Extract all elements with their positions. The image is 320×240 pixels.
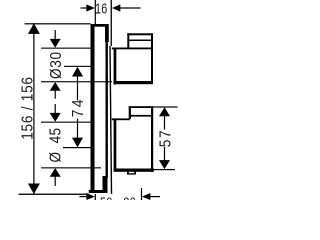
node 74 dimension bottom arrow — [72, 138, 83, 148]
node bottom dimension right arrow — [142, 193, 150, 200]
node bottom dimension left arrow — [86, 193, 94, 200]
wire: 57 dimension top extension line — [153, 106, 178, 107]
wire: 16 dimension left extension line — [95, 0, 96, 24]
node diameter 30 top arrow — [50, 39, 61, 48]
wire: 156 dimension line — [33, 23, 34, 194]
node diameter 45 top arrow — [50, 113, 61, 122]
node lower handle right edge — [151, 106, 153, 172]
node top handle body left edge — [114, 48, 117, 85]
wire: basic set top housing right leg — [105, 24, 109, 42]
node 156 dimension bottom arrow — [28, 184, 40, 195]
wire: bottom dimension left extension line — [95, 194, 96, 200]
svg-text:Ø30: Ø30 — [48, 51, 65, 79]
wire: 16 dimension right leader line — [120, 7, 141, 8]
node top handle cap top edge — [127, 33, 153, 35]
node lower handle bottom edge — [114, 169, 154, 172]
wire: 57 dimension line upper segment — [164, 116, 165, 130]
wire: bottom dimension right leader line — [150, 196, 160, 197]
wire: diameter 45 top arrow stem — [55, 104, 56, 114]
wire: finished wall section line — [91, 24, 95, 193]
wire: lower handle center extension line — [63, 147, 91, 148]
node 57 dimension bottom arrow — [159, 160, 170, 169]
node diameter 30 bottom arrow — [50, 82, 61, 91]
svg-text:57: 57 — [158, 129, 175, 148]
wire: escutcheon plate front edge upper line — [111, 0, 112, 46]
svg-text:50 - 80: 50 - 80 — [100, 196, 136, 200]
node top handle cap left edge — [127, 33, 129, 48]
wire: escutcheon plate back edge line — [106, 24, 108, 178]
wire: bottom dimension left leader line — [80, 196, 87, 197]
svg-text:156 / 156: 156 / 156 — [20, 76, 37, 140]
node top handle body bottom edge — [114, 81, 153, 84]
wire: basic set bottom housing bottom bar — [89, 190, 108, 193]
node lower handle front left edge — [129, 106, 131, 119]
node lower handle body left edge — [114, 118, 117, 171]
node 57 dimension top arrow — [159, 107, 170, 116]
node lower handle safety stop notch — [127, 172, 136, 175]
wire: handles center distance 74 dimension line lower — [77, 119, 78, 139]
node top handle cap seam line — [128, 40, 151, 42]
node top handle body top edge — [112, 48, 153, 50]
wire: basic set bottom housing right leg — [103, 176, 108, 193]
wire: diameter 30 top extension line — [41, 48, 91, 49]
wire: basic set top housing top bar — [91, 24, 109, 27]
wire: diameter 30 top arrow stem — [55, 30, 56, 40]
wire: diameter 30 bottom arrow stem — [55, 90, 56, 98]
wire: diameter 45 bottom extension line — [41, 167, 101, 168]
wire: diameter 45 top extension line — [41, 122, 91, 123]
node 16 dimension left arrow — [86, 4, 94, 11]
node top handle right edge — [151, 33, 153, 84]
svg-text:Ø 45: Ø 45 — [48, 128, 65, 163]
node 16 dimension right arrow — [112, 4, 120, 11]
wire: diameter 45 bottom arrow stem — [55, 176, 56, 186]
node lower handle body top edge — [112, 118, 130, 120]
wire: escutcheon plate front edge lower line — [109, 46, 112, 194]
wire: 57 dimension bottom extension line — [154, 169, 176, 170]
svg-text:16: 16 — [95, 0, 108, 17]
node lower handle front seam line — [130, 115, 151, 117]
wire: handles center distance 74 dimension line upper — [77, 76, 78, 101]
node 156 dimension top arrow — [28, 23, 40, 34]
wire: top handle center extension line — [64, 66, 91, 67]
node diameter 45 bottom arrow — [50, 168, 61, 177]
wire: 156 dimension top extension line — [25, 23, 91, 24]
node lower handle front top edge — [129, 106, 153, 108]
wire: bottom dimension right extension line — [141, 188, 142, 200]
node 74 dimension top arrow — [72, 67, 83, 77]
wire: diameter 30 bottom extension line — [41, 81, 112, 82]
svg-text:74: 74 — [70, 97, 87, 117]
wire: 156 dimension bottom extension line — [19, 194, 89, 195]
wire: 16 dimension left leader line — [81, 7, 88, 8]
wire: 57 dimension line lower segment — [164, 147, 165, 161]
